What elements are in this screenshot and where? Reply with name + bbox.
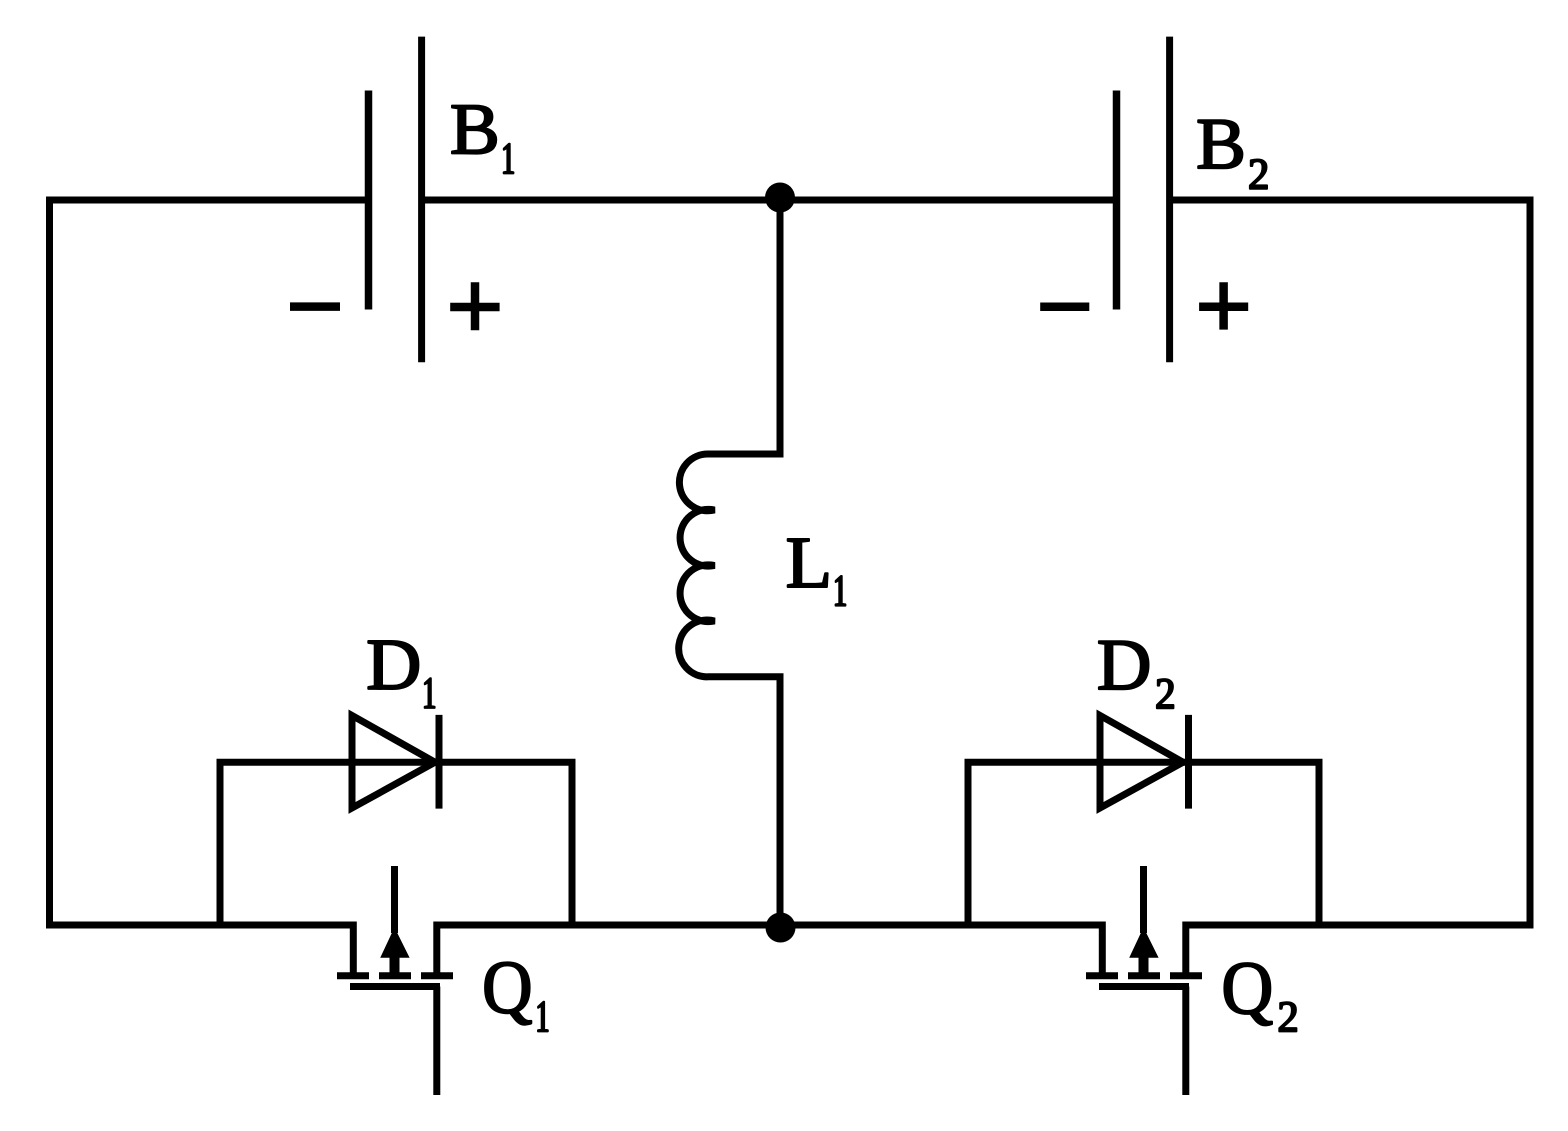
- transistor Q1 label: [485, 962, 548, 1031]
- transistor Q2 source bend (right terminal down from bottom wire): [1182, 922, 1189, 976]
- battery B1 positive plate (long): [418, 37, 425, 363]
- wire: top middle (B1 + terminal to B2 - terminal through node A): [422, 197, 1114, 204]
- transistor Q1 gate bar: [350, 983, 440, 990]
- diode D1 cathode bar: [436, 715, 443, 809]
- diode D2 cathode bar: [1185, 715, 1192, 809]
- battery B2 label: [1198, 120, 1267, 188]
- transistor Q2 gate bar: [1099, 983, 1189, 990]
- battery B1 negative plate (short): [365, 91, 373, 310]
- battery B2 minus sign: [1040, 302, 1089, 311]
- transistor Q1 body arrow line: [391, 866, 398, 933]
- transistor Q1 channel dashes: [337, 972, 453, 979]
- node A junction dot (top, battery midpoint to L1): [765, 183, 795, 213]
- diode D1 triangle (anode): [352, 716, 435, 809]
- transistor Q1 drain bend (left terminal down from bottom wire): [350, 922, 357, 976]
- inductor L1 with connecting wires from node A to node B: [679, 198, 780, 928]
- battery B1 label: [452, 106, 513, 174]
- transistor Q1 body arrow stub: [390, 955, 400, 977]
- transistor Q1 source bend (right terminal down from bottom wire): [433, 922, 440, 976]
- transistor Q2 label: [1224, 963, 1296, 1031]
- transistor Q2 body arrow head: [1130, 929, 1158, 958]
- battery B2 positive plate (long): [1166, 37, 1173, 363]
- transistor Q2 gate lead down: [1182, 987, 1189, 1096]
- diode D2 triangle (anode): [1100, 716, 1183, 809]
- diode D1 label: [368, 641, 434, 708]
- wire: top-right, right side, bottom-right loop: [1170, 200, 1530, 925]
- transistor Q2 body arrow stub: [1139, 955, 1149, 977]
- inductor L1 label: [788, 539, 846, 606]
- battery B2 plus sign: [1199, 282, 1248, 329]
- transistor Q2 drain bend (left terminal down from bottom wire): [1099, 922, 1106, 976]
- wire: top-left, left side, bottom-left loop: [50, 200, 367, 925]
- battery B1 plus sign: [450, 282, 499, 330]
- wire: D2 bypass loop (left leg, top, right leg): [968, 762, 1319, 925]
- battery B1 minus sign: [290, 302, 340, 311]
- transistor Q2 channel dashes: [1086, 972, 1202, 979]
- transistor Q2 body arrow line: [1140, 866, 1147, 933]
- transistor Q1 gate lead down: [433, 987, 440, 1096]
- node B junction dot (bottom, L1 to source rail): [766, 913, 796, 943]
- battery B2 negative plate (short): [1113, 91, 1121, 310]
- transistor Q1 body arrow head: [381, 929, 409, 958]
- wire: D1 bypass loop (left leg, top, right leg): [220, 762, 572, 925]
- diode D2 label: [1099, 641, 1174, 708]
- wire: bottom middle (Q1 source side to Q2 drain side through node B): [437, 922, 1103, 929]
